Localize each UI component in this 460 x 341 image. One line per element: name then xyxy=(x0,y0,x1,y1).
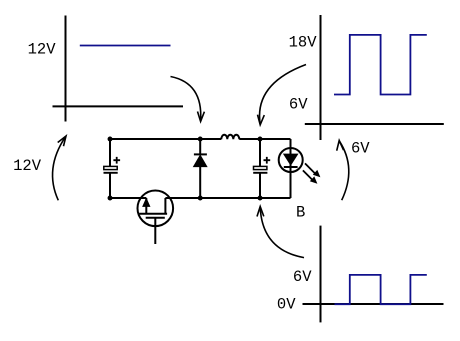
G2 waveform: 6V-18V square wave xyxy=(334,35,427,95)
wire: diode branch lower xyxy=(199,166,201,198)
capacitor C2 bottom plate xyxy=(253,172,267,174)
svg-text:18V: 18V xyxy=(289,34,318,52)
transistor Q1 drain vertical xyxy=(164,198,166,214)
inductor L1 xyxy=(221,135,239,140)
LED D2 emission arrow 1 xyxy=(305,163,316,174)
wire: bottom rail left segment into MOSFET xyxy=(110,197,146,199)
capacitor C1 plus sign xyxy=(113,157,120,164)
graph G1: horizontal axis xyxy=(53,105,184,107)
wire: LED branch vertical xyxy=(290,139,292,198)
LED D2 cathode bar xyxy=(284,166,298,168)
transistor Q1 source vertical with channel xyxy=(145,198,147,214)
capacitor C1 bottom plate xyxy=(104,172,118,174)
wire: input cap branch upper xyxy=(109,139,111,166)
node junction dot input cap bottom xyxy=(108,196,113,201)
transistor Q1 arrow xyxy=(143,199,150,207)
svg-text:B: B xyxy=(296,204,305,222)
G3 waveform: 0V-6V square wave xyxy=(335,275,427,304)
graph G2: switch-node plot, vertical axis xyxy=(320,15,322,140)
LED D2 body circle xyxy=(279,148,303,172)
graph G3: horizontal axis xyxy=(303,303,444,305)
annotation arrow from G1 plot to switch node xyxy=(171,77,201,121)
wire: output cap branch lower xyxy=(259,174,261,199)
wire: top rail from input cap to LED branch xyxy=(110,138,291,140)
node junction dot output cap bottom xyxy=(258,196,263,201)
capacitor C1 top plate xyxy=(104,166,117,169)
transistor Q1 gate plate xyxy=(146,217,165,219)
capacitor C2 top plate xyxy=(254,166,267,169)
transistor Q1 body circle xyxy=(138,191,174,227)
node junction dot input cap top xyxy=(108,137,113,142)
wire: diode branch upper xyxy=(199,139,201,155)
node junction dot diode top xyxy=(198,137,203,142)
graph G3: gate-drive plot, vertical axis xyxy=(320,226,322,323)
graph G1: 12V input DC plot, vertical axis xyxy=(65,16,67,122)
svg-text:6V: 6V xyxy=(293,268,312,286)
svg-text:6V: 6V xyxy=(351,140,370,158)
LED D2 triangle xyxy=(284,154,298,165)
wire: bottom rail right segment from MOSFET to LED branch xyxy=(165,197,290,199)
diode D1 triangle xyxy=(194,155,207,166)
wire: input cap branch lower xyxy=(109,174,111,199)
G1 waveform: 12V DC level line xyxy=(80,45,171,47)
diode D1 cathode bar xyxy=(194,153,207,155)
annotation arrow from LED output to 6V label xyxy=(339,141,348,200)
transistor Q1 channel bar xyxy=(139,213,167,215)
LED D2 emission arrow 2 xyxy=(303,170,313,180)
node junction dot diode bottom xyxy=(198,196,203,201)
annotation arrow from 12V label to input xyxy=(53,136,66,200)
transistor Q1 gate lead xyxy=(154,218,156,244)
wire: output cap branch upper xyxy=(259,139,261,166)
svg-text:12V: 12V xyxy=(13,157,42,175)
svg-text:6V: 6V xyxy=(289,96,308,114)
capacitor C2 plus sign xyxy=(264,157,271,164)
node junction dot output cap top xyxy=(258,137,263,142)
annotation arrow from G2 plot to diode node xyxy=(260,65,306,125)
svg-text:0V: 0V xyxy=(277,296,296,314)
annotation arrow from G3 plot to gate node B xyxy=(260,207,304,258)
svg-text:12V: 12V xyxy=(28,41,57,59)
graph G2: horizontal axis xyxy=(305,123,444,125)
